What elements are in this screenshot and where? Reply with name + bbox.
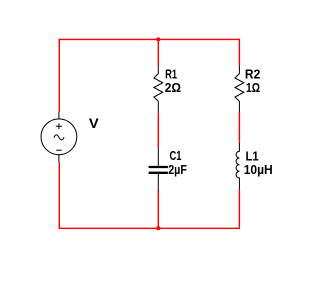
wire left vertical upper [58,39,60,112]
capacitor C1 [149,148,168,191]
resistor R2 [235,66,244,113]
svg-text:2Ω: 2Ω [165,80,181,95]
wire right vertical lower [238,189,240,229]
junction top node [156,37,160,41]
voltage source minus sign [56,149,62,151]
wire middle branch center [157,113,159,148]
wire left vertical lower [58,162,60,229]
wire middle branch lower [157,190,159,228]
voltage source sine symbol [54,135,64,140]
voltage source V circle [41,119,77,155]
wire top rail [59,38,240,40]
svg-text:L1: L1 [246,148,259,163]
svg-text:1Ω: 1Ω [246,80,260,95]
wire right vertical upper [238,39,240,66]
svg-text:C1: C1 [170,148,182,163]
voltage source plus sign [56,123,62,129]
wire bottom rail [59,227,240,229]
resistor R1 [154,66,163,113]
voltage source V1 leads [58,112,60,119]
wire middle branch upper [157,39,159,65]
junction bottom node [156,226,160,230]
svg-text:2µF: 2µF [168,162,187,177]
svg-text:V: V [89,115,99,131]
svg-text:10µH: 10µH [244,162,273,177]
inductor L1 [236,143,239,190]
wire right vertical center [238,112,240,143]
